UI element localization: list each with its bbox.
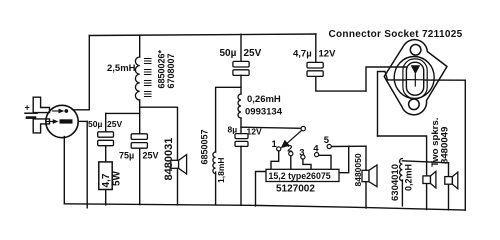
wire switch box left to bus	[256, 172, 267, 206]
wire speaker LS3 to bus	[426, 184, 428, 210]
wire speakers top link	[402, 161, 448, 163]
svg-text:0,26mH: 0,26mH	[247, 94, 281, 105]
svg-text:12V: 12V	[247, 127, 262, 137]
wire C2 to bus	[139, 148, 141, 204]
switch S1 contact 4	[315, 153, 319, 157]
svg-text:5: 5	[324, 135, 330, 146]
svg-text:2: 2	[287, 144, 292, 155]
svg-text:50µ: 50µ	[88, 119, 102, 129]
switch S1 box	[266, 169, 339, 181]
speaker LS2 8480050	[362, 170, 369, 181]
wire speaker LS4 to bus	[448, 185, 450, 210]
wire tube cathode lead	[78, 120, 87, 122]
wire socket pin A	[366, 67, 413, 91]
wire tube bottom to bus	[63, 137, 65, 204]
tube V1 cathode arrow and bar	[47, 121, 53, 123]
wire tap to speaker LS1	[140, 107, 178, 205]
speaker LS3	[423, 176, 431, 184]
svg-text:50µ: 50µ	[220, 48, 237, 59]
switch S1 contact 1	[277, 147, 281, 151]
wire socket B to speakers	[378, 136, 427, 162]
battery B1 plug bottom prong	[33, 119, 49, 133]
resistor R1 4,7 5W box	[99, 162, 112, 190]
svg-text:6850026*: 6850026*	[157, 49, 167, 88]
wire R1 to bus	[105, 189, 107, 205]
svg-text:25V: 25V	[244, 48, 262, 59]
inductor L4 0,2mH coil	[400, 159, 403, 181]
wire bottom bus	[64, 204, 465, 210]
capacitor C3 50u 25V plates	[233, 61, 249, 67]
capacitor C2 75u plates	[131, 134, 147, 140]
wire to switch wiper	[241, 127, 301, 128]
switch S1 contact 3	[301, 155, 305, 159]
svg-text:75µ: 75µ	[119, 151, 134, 161]
svg-text:25V: 25V	[107, 119, 122, 129]
speaker LS1 8480031	[171, 160, 179, 168]
svg-text:0993134: 0993134	[245, 107, 283, 118]
socket key triangle	[411, 65, 421, 74]
inductor L2 0,26mH coil	[238, 94, 241, 118]
wire L4 to bus	[401, 180, 403, 206]
socket inner ring	[394, 57, 434, 99]
wire L2 to C4	[240, 118, 242, 133]
svg-text:+: +	[25, 103, 30, 113]
svg-text:0,2mH: 0,2mH	[404, 164, 414, 191]
wire pin5 branch to box	[339, 146, 349, 172]
wire junction C1 to L1 node	[106, 112, 140, 114]
capacitor C1 50u 25V plates	[98, 132, 114, 137]
wire switch pin5 to LS2 line	[331, 145, 366, 147]
switch S1 contact 2	[289, 152, 293, 156]
inductor L1 2,5mH coil	[135, 57, 139, 100]
svg-text:2,5mH: 2,5mH	[107, 63, 136, 74]
capacitor C5 4,7u 12V plates	[307, 62, 323, 68]
wire L3 to bus	[215, 172, 217, 205]
wire C5 bottom	[316, 77, 366, 91]
wire C4 to bus	[240, 146, 242, 205]
svg-text:8480049: 8480049	[440, 127, 451, 164]
wire speaker LS4 feed	[448, 163, 450, 177]
svg-text:12V: 12V	[319, 49, 337, 60]
svg-text:3: 3	[299, 148, 304, 159]
wire ground drop left	[86, 121, 88, 207]
inductor L1 core marks	[145, 59, 152, 97]
connector socket J1 shell	[384, 40, 447, 115]
speaker LS4	[445, 177, 453, 185]
wire speaker LS3 feed	[426, 162, 428, 177]
tube V1 envelope	[46, 105, 78, 137]
svg-text:5W: 5W	[112, 170, 123, 186]
socket hole top	[410, 45, 421, 56]
svg-text:8480031: 8480031	[163, 138, 175, 181]
svg-text:4,7: 4,7	[101, 173, 112, 187]
svg-text:4,7µ: 4,7µ	[293, 49, 312, 60]
switch S1 wiper arrow	[287, 131, 302, 144]
wire top bus	[89, 34, 316, 36]
wire LS2 to bus	[365, 182, 367, 208]
svg-text:5127002: 5127002	[276, 184, 315, 195]
svg-text:6850057: 6850057	[200, 129, 210, 164]
wire LS2 line upper	[365, 146, 367, 170]
svg-text:15,2 type26075: 15,2 type26075	[269, 171, 331, 181]
wire socket pin B riser	[378, 72, 388, 137]
wire C3 top feed	[240, 34, 242, 61]
wire L1 line lower to C2	[139, 100, 141, 134]
svg-text:6304010: 6304010	[390, 164, 401, 201]
wire C5 feed	[315, 34, 317, 62]
capacitor C4 8u 12V plates	[235, 134, 248, 139]
svg-text:4: 4	[313, 144, 319, 155]
wire right drop	[464, 80, 466, 210]
tube V1 anode arrow and dot	[53, 110, 60, 112]
switch S1 wiper terminal	[301, 126, 305, 130]
wire left riser	[88, 36, 90, 110]
wire C1 to R1	[105, 146, 107, 163]
switch S1 contact 5	[327, 144, 331, 148]
battery B1 plates	[25, 112, 37, 114]
svg-text:1,8mH: 1,8mH	[216, 157, 226, 183]
wire tube plate lead	[73, 109, 90, 111]
svg-text:1: 1	[272, 139, 278, 150]
wire tap to coil L3	[216, 87, 241, 152]
svg-text:8480050: 8480050	[353, 153, 363, 186]
inductor L3 6850057 coil	[213, 152, 216, 174]
socket keyway ring	[403, 59, 427, 99]
socket centre pill	[406, 62, 423, 95]
socket pill crossbar	[406, 79, 423, 81]
svg-text:25V: 25V	[143, 151, 159, 161]
wire C1 branch upper	[105, 113, 107, 131]
svg-text:8µ: 8µ	[228, 125, 238, 135]
wire C3 to L2	[240, 75, 242, 94]
wire L1 line upper	[139, 35, 141, 57]
battery B1 plug top prong	[33, 97, 49, 112]
svg-text:6708007: 6708007	[166, 53, 176, 88]
wire socket crossbar	[388, 79, 466, 81]
svg-text:Connector Socket 7211025: Connector Socket 7211025	[329, 29, 463, 40]
socket hole bottom	[409, 99, 420, 110]
